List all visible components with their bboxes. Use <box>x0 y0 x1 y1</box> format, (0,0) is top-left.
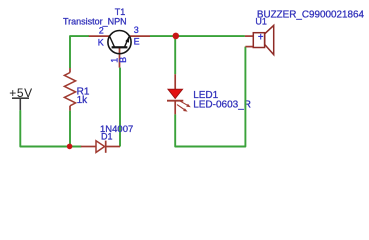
svg-text:1k: 1k <box>77 95 89 106</box>
emission arrow 1 <box>179 100 191 107</box>
svg-text:BUZZER_C9900021864: BUZZER_C9900021864 <box>257 10 365 21</box>
cathode lead <box>174 101 176 115</box>
svg-text:B: B <box>118 57 128 63</box>
plus mark <box>258 34 263 40</box>
pin 3 lead <box>129 35 150 37</box>
LED triangle <box>168 89 183 98</box>
pin 1 lead <box>245 35 253 37</box>
buzzer U1 <box>245 25 274 54</box>
wire R1 bottom to junction <box>69 111 71 147</box>
cathode bar <box>167 100 183 102</box>
emitter line with arrow <box>124 37 129 48</box>
base bar <box>112 46 128 48</box>
pin 1 lead <box>119 47 121 67</box>
buzzer cone <box>265 25 274 54</box>
buzzer body rectangle <box>253 33 264 48</box>
pin 2 lead <box>245 46 253 48</box>
svg-text:K: K <box>98 37 104 47</box>
anode lead <box>174 74 176 89</box>
svg-text:E: E <box>134 37 140 47</box>
svg-text:3: 3 <box>134 25 139 35</box>
svg-text:Transistor_NPN: Transistor_NPN <box>63 16 127 26</box>
wire transistor base down <box>119 68 121 147</box>
svg-text:U1: U1 <box>255 16 267 26</box>
wire junction down to LED <box>174 36 176 74</box>
diode D1 <box>81 141 120 153</box>
anode lead <box>81 146 96 148</box>
cathode bar <box>105 141 107 153</box>
wire R1 top up and right to transistor pin 2 <box>70 36 89 68</box>
wire emitter to buzzer <box>150 35 245 37</box>
junction dot top node <box>173 33 180 40</box>
svg-text:LED-0603_R: LED-0603_R <box>193 99 251 110</box>
svg-text:2: 2 <box>99 26 104 36</box>
LED LED1 <box>167 74 191 114</box>
svg-text:D1: D1 <box>101 131 113 141</box>
resistor R1 <box>64 68 75 111</box>
junction dot bottom-left node <box>67 144 73 150</box>
cathode lead <box>106 146 120 148</box>
wire LED cathode to buzzer pin 2 <box>175 47 245 147</box>
wire +5V down and bottom-left run <box>20 111 81 147</box>
diode triangle <box>96 141 105 153</box>
pin 2 lead <box>89 35 110 37</box>
transistor T1 <box>89 30 150 67</box>
transistor body circle <box>108 30 131 53</box>
collector line <box>110 37 115 48</box>
power flag +5V <box>9 86 33 111</box>
emission arrow 2 <box>177 105 188 112</box>
svg-text:T1: T1 <box>115 7 126 17</box>
